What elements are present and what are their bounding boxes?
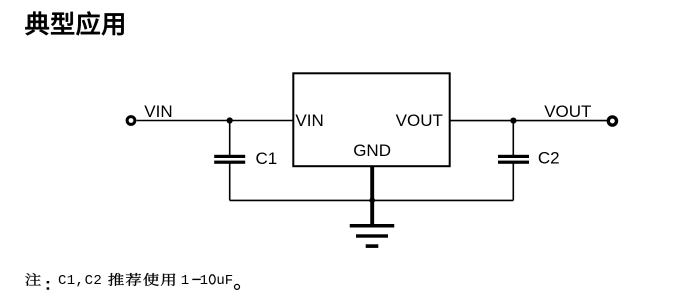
- wire input to IC: [137, 120, 294, 122]
- capacitor C1: [214, 155, 245, 164]
- wire GND stub from IC: [370, 166, 374, 224]
- svg-text:1: 1: [181, 273, 189, 289]
- IC U1 regulator body: [293, 73, 449, 166]
- note text 注: [25, 273, 40, 286]
- svg-text:VIN: VIN: [144, 102, 172, 121]
- svg-text:VIN: VIN: [295, 111, 323, 130]
- svg-text:VOUT: VOUT: [544, 102, 591, 121]
- svg-text:GND: GND: [353, 141, 391, 160]
- node junction output: [510, 118, 516, 124]
- svg-text:VOUT: VOUT: [396, 111, 443, 130]
- svg-text:uF: uF: [216, 273, 233, 289]
- note text ideographic full stop: [235, 284, 240, 289]
- note text fullwidth colon: [47, 281, 50, 290]
- ground: [350, 224, 395, 248]
- svg-text:C1,: C1,: [58, 273, 84, 289]
- wire IC to output: [450, 120, 607, 122]
- wire junction to C1: [229, 121, 231, 156]
- capacitor C2: [498, 155, 529, 164]
- svg-text:C2: C2: [538, 149, 560, 168]
- heading title 典型应用: [25, 11, 123, 35]
- svg-text:C1: C1: [256, 149, 278, 168]
- output terminal VOUT: [608, 117, 616, 125]
- svg-text:1: 1: [200, 273, 208, 289]
- note text 推荐使用: [108, 273, 175, 286]
- node junction input: [227, 117, 233, 123]
- wire junction to C2: [512, 121, 514, 156]
- node junction ground rail: [369, 198, 375, 204]
- wire C2 to ground rail: [512, 164, 514, 201]
- input terminal VIN: [127, 117, 135, 125]
- wire ground rail: [230, 199, 514, 201]
- svg-text:C2: C2: [85, 273, 103, 289]
- wire C1 to ground rail: [229, 164, 231, 201]
